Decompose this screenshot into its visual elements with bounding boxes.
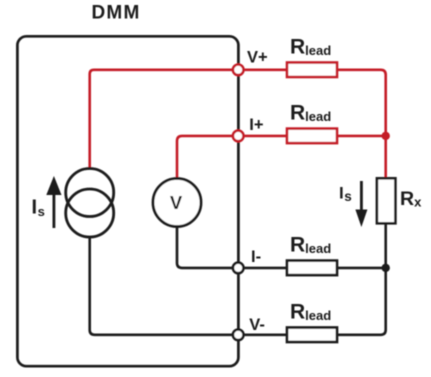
svg-text:V-: V- (249, 316, 265, 334)
resistor Rlead (I- row) (287, 261, 337, 276)
svg-text:I-: I- (251, 248, 261, 266)
wire: current source bottom to V- terminal (90, 237, 290, 335)
svg-text:DMM: DMM (92, 3, 141, 24)
svg-text:V: V (170, 192, 183, 213)
svg-text:I+: I+ (249, 116, 263, 134)
arrow Is (up, left of current source) (46, 176, 61, 228)
junction: I+ lead / Rx top (red dot) (382, 132, 390, 140)
resistor Rlead (I+ row) (287, 129, 337, 144)
resistor Rlead (V- row) (287, 328, 337, 343)
wire: Rx bottom to I- junction (384, 223, 387, 268)
terminal V- (233, 330, 244, 341)
wire: voltmeter bottom to I- terminal (177, 226, 290, 268)
terminal V+ (233, 65, 244, 76)
voltmeter V (153, 179, 201, 227)
wire: I- junction down to V- lead resistor (337, 268, 386, 335)
wire: I+ lead resistor to junction (red) (334, 135, 386, 138)
svg-text:V+: V+ (247, 49, 268, 67)
current source Is (overlapping circles) (66, 169, 114, 238)
junction: I- lead / Rx bottom / V- lead (black dot) (382, 264, 390, 272)
wire: current source top to V+ terminal (red) (90, 70, 290, 169)
wire: I- lead resistor to junction (334, 267, 386, 270)
resistor Rlead (V+ row) (287, 63, 337, 78)
terminal I- (233, 263, 244, 274)
wire: voltmeter top to I+ terminal (red) (177, 136, 290, 180)
wire: V+ lead resistor to Rx top (red) (334, 70, 386, 179)
terminal I+ (233, 131, 244, 142)
resistor Rx (377, 178, 396, 223)
DMM enclosure box (17, 36, 238, 366)
arrow Is (down, left of Rx) (355, 181, 367, 227)
